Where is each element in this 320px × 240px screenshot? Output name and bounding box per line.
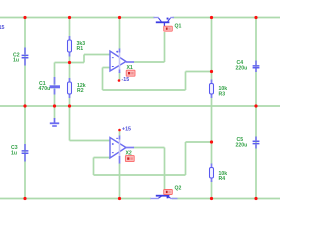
capacitor C5 (220u): [253, 137, 260, 149]
capacitor C2: [22, 48, 29, 66]
svg-text:220u: 220u: [236, 66, 248, 72]
resistor R2 (12k): [68, 78, 72, 98]
wire X2 -input feedback loop: [94, 142, 212, 175]
transistor Q2: [151, 192, 178, 199]
svg-text:R3: R3: [219, 92, 226, 98]
node bottom rail x119.5: [118, 197, 121, 200]
device box X1: [126, 70, 135, 76]
node R1-R2 junction: [68, 61, 71, 64]
svg-text:470u: 470u: [39, 86, 51, 92]
wire bottom rail -15: [0, 198, 151, 200]
capacitor C3: [22, 144, 29, 162]
wire C1 column: [54, 63, 56, 120]
svg-text:+15: +15: [122, 127, 131, 133]
wire node R1-R2 junction to C1: [55, 62, 85, 64]
wire X1 -input feedback loop: [103, 68, 212, 91]
svg-text:1u: 1u: [11, 151, 17, 157]
svg-text:-15: -15: [122, 77, 130, 83]
wire top rail +15 in/out: [0, 18, 280, 199]
node mid rail x25: [23, 104, 26, 107]
wire X1 +input jog: [84, 55, 110, 63]
node top rail x211.5: [210, 16, 213, 19]
wire X2 +input: [70, 140, 110, 142]
device box Q1: [164, 26, 173, 31]
labels green: [11, 24, 247, 192]
node top rail x119.5: [118, 16, 121, 19]
node mid rail x54.5: [53, 104, 56, 107]
svg-text:R2: R2: [77, 88, 84, 94]
wire R3/R4 column: [211, 18, 213, 199]
device box X2: [125, 156, 134, 162]
resistor R4 (10k): [210, 164, 214, 183]
device box Q2: [164, 190, 173, 195]
wire C2/C3 column: [24, 18, 26, 199]
node terminal -15: [118, 79, 121, 82]
svg-text:X2: X2: [126, 151, 132, 157]
wire mid rail 0V: [0, 105, 280, 107]
node mid rail x69.5: [68, 104, 71, 107]
net labels blue: [0, 25, 131, 133]
svg-text:Q1: Q1: [175, 24, 182, 30]
wire X1 output to Q1 base: [134, 32, 165, 62]
node bottom rail x256: [254, 197, 257, 200]
node terminal +15: [118, 129, 121, 132]
node top rail x256: [254, 16, 257, 19]
svg-text:X1: X1: [127, 65, 133, 71]
node X2 feedback tap: [210, 140, 213, 143]
svg-text:Q2: Q2: [175, 186, 182, 192]
wire X1 V- stub to -15: [119, 72, 121, 80]
op-amp X1: [110, 49, 134, 74]
capacitor C1 (470u): [50, 77, 60, 95]
svg-text:220u: 220u: [236, 143, 248, 149]
node top rail x69.5: [68, 16, 71, 19]
node mid rail x256: [254, 104, 257, 107]
capacitor C4 (220u): [253, 61, 260, 73]
node X1 feedback tap: [210, 70, 213, 73]
node bottom rail x25: [23, 197, 26, 200]
op-amp X2: [110, 136, 134, 164]
svg-text:R4: R4: [219, 176, 226, 182]
node bottom rail x211.5: [210, 197, 213, 200]
transistor Q1: [154, 18, 175, 27]
node top rail x25: [23, 16, 26, 19]
svg-text:1u: 1u: [13, 58, 19, 64]
resistor R1 (3k3): [68, 36, 72, 57]
wire C4/C5 column: [255, 18, 257, 199]
resistor R3 (10k): [210, 80, 214, 99]
wire X2 output to Q2 base: [134, 148, 165, 190]
wire X2 V+ stub to +15: [119, 131, 121, 137]
wire R1/R2 divider column: [69, 18, 71, 141]
wire X1 V+ supply from top rail: [119, 18, 121, 50]
wire X2 V- to bottom rail: [119, 163, 121, 199]
ground: [50, 118, 59, 126]
svg-text:R1: R1: [77, 46, 84, 52]
svg-text:+15: +15: [0, 25, 5, 31]
